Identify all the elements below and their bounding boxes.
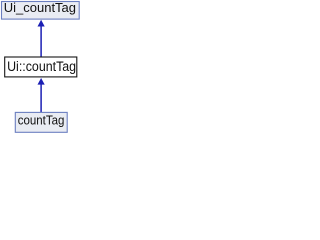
- inheritance arrow 2: [38, 78, 45, 112]
- background: [0, 0, 82, 136]
- class box Ui::countTag (current): [5, 57, 77, 77]
- svg-text:Ui::countTag: Ui::countTag: [7, 59, 76, 74]
- class box Ui_countTag: [2, 1, 80, 19]
- svg-text:Ui_countTag: Ui_countTag: [4, 1, 76, 15]
- inheritance arrow 1: [38, 20, 45, 57]
- class box countTag: [15, 112, 67, 132]
- svg-text:countTag: countTag: [18, 113, 65, 127]
